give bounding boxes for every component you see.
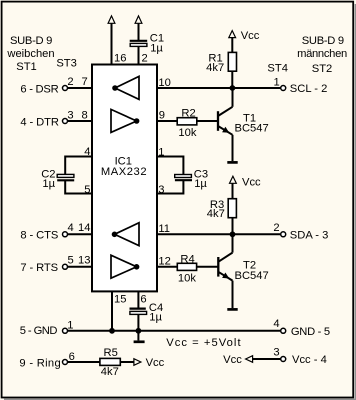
- svg-text:7 - RTS: 7 - RTS: [20, 262, 58, 274]
- svg-text:6: 6: [140, 293, 146, 305]
- svg-text:5 - GND: 5 - GND: [20, 325, 58, 337]
- svg-text:Vcc: Vcc: [146, 357, 165, 369]
- svg-text:SUB-D 9: SUB-D 9: [10, 35, 52, 47]
- svg-text:11: 11: [158, 223, 170, 235]
- svg-text:1µ: 1µ: [42, 178, 55, 190]
- svg-text:ST2: ST2: [312, 63, 333, 75]
- svg-text:R5: R5: [104, 347, 118, 359]
- svg-text:4 - DTR: 4 - DTR: [20, 116, 58, 128]
- svg-text:2: 2: [142, 53, 148, 65]
- svg-text:9 - Ring: 9 - Ring: [19, 357, 61, 369]
- svg-text:13: 13: [78, 254, 90, 266]
- svg-text:ST1: ST1: [16, 61, 37, 73]
- svg-text:Vcc: Vcc: [241, 30, 260, 42]
- svg-text:R4: R4: [180, 254, 194, 266]
- svg-text:4k7: 4k7: [206, 62, 224, 74]
- svg-text:1: 1: [67, 320, 73, 332]
- svg-text:Vcc - 4: Vcc - 4: [292, 354, 327, 366]
- svg-text:BC547: BC547: [235, 123, 269, 135]
- svg-text:10: 10: [158, 77, 170, 89]
- svg-text:4: 4: [273, 318, 279, 330]
- svg-text:1: 1: [273, 76, 279, 88]
- svg-text:Vcc: Vcc: [242, 176, 261, 188]
- svg-text:6 - DSR: 6 - DSR: [20, 83, 58, 95]
- svg-text:weibchen: weibchen: [6, 48, 54, 60]
- svg-text:12: 12: [158, 255, 170, 267]
- svg-text:SCL - 2: SCL - 2: [290, 83, 328, 95]
- svg-text:2: 2: [67, 76, 73, 88]
- svg-text:9: 9: [159, 109, 165, 121]
- svg-text:8: 8: [81, 109, 87, 121]
- svg-text:10k: 10k: [178, 272, 196, 284]
- svg-text:4: 4: [84, 146, 90, 158]
- svg-text:männchen: männchen: [297, 48, 347, 60]
- svg-text:14: 14: [78, 222, 90, 234]
- svg-text:6: 6: [69, 351, 75, 363]
- svg-text:1µ: 1µ: [150, 43, 163, 55]
- svg-text:Vcc = +5Volt: Vcc = +5Volt: [166, 337, 241, 349]
- svg-text:15: 15: [114, 293, 126, 305]
- svg-text:Vcc: Vcc: [223, 354, 242, 366]
- svg-text:4k7: 4k7: [101, 366, 119, 378]
- svg-text:16: 16: [114, 53, 126, 65]
- svg-text:MAX232: MAX232: [101, 166, 147, 178]
- svg-text:10k: 10k: [178, 127, 196, 139]
- svg-text:GND - 5: GND - 5: [291, 326, 330, 338]
- svg-text:2: 2: [273, 222, 279, 234]
- svg-text:1µ: 1µ: [194, 178, 207, 190]
- svg-text:1: 1: [158, 147, 164, 159]
- svg-text:3: 3: [273, 347, 279, 359]
- svg-text:4k7: 4k7: [207, 208, 225, 220]
- svg-text:7: 7: [81, 76, 87, 88]
- svg-text:ST4: ST4: [267, 62, 288, 74]
- svg-text:3: 3: [67, 109, 73, 121]
- svg-text:3: 3: [158, 184, 164, 196]
- svg-text:SUB-D 9: SUB-D 9: [302, 35, 344, 47]
- svg-text:R2: R2: [181, 108, 195, 120]
- svg-text:1µ: 1µ: [149, 312, 162, 324]
- svg-text:BC547: BC547: [235, 270, 269, 282]
- svg-text:SDA - 3: SDA - 3: [290, 230, 329, 242]
- svg-text:5: 5: [84, 184, 90, 196]
- svg-text:8 - CTS: 8 - CTS: [20, 230, 58, 242]
- svg-text:4: 4: [67, 222, 73, 234]
- svg-text:ST3: ST3: [56, 58, 77, 70]
- svg-text:5: 5: [67, 254, 73, 266]
